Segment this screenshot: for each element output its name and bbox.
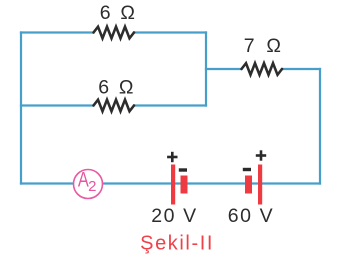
svg-text:6 Ω: 6 Ω (98, 77, 135, 99)
svg-text:20 V: 20 V (151, 205, 198, 227)
svg-text:60 V: 60 V (228, 205, 275, 227)
svg-text:2: 2 (88, 178, 96, 195)
svg-text:7 Ω: 7 Ω (244, 35, 284, 57)
svg-text:Şekil-II: Şekil-II (140, 233, 214, 255)
svg-text:6 Ω: 6 Ω (100, 2, 137, 24)
